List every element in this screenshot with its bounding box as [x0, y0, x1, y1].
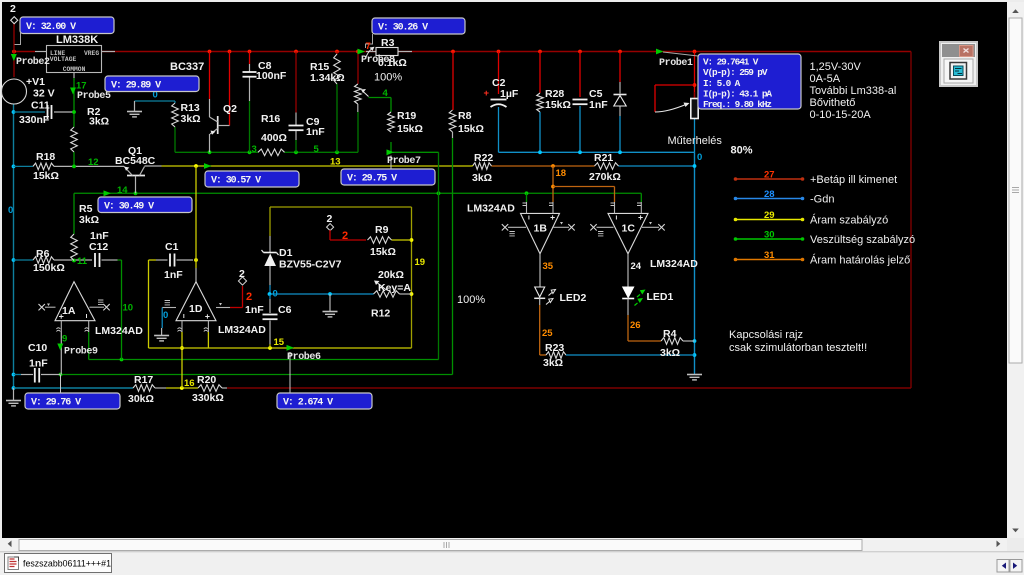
svg-text:V: 29.7641 V: V: 29.7641 V — [703, 57, 759, 68]
svg-text:C11: C11 — [31, 100, 50, 112]
probe Probe1 — [656, 49, 693, 69]
svg-text:V: 29.89 V: V: 29.89 V — [111, 80, 161, 91]
svg-text:+: + — [483, 88, 489, 99]
net label 19 — [415, 257, 426, 268]
svg-text:LM338K: LM338K — [56, 34, 98, 46]
svg-text:270kΩ: 270kΩ — [589, 171, 621, 183]
svg-text:1A: 1A — [62, 305, 76, 317]
junction rail x=14 — [12, 50, 16, 54]
svg-text:16: 16 — [184, 378, 195, 389]
junction node13 riser — [194, 164, 198, 168]
junction net0 bottom — [12, 386, 16, 390]
svg-text:11: 11 — [77, 256, 88, 267]
svg-text:Probe1: Probe1 — [659, 57, 693, 69]
resistor R13 — [172, 102, 201, 127]
legend net 30 — [734, 230, 915, 247]
probe box 29.89 — [105, 76, 199, 92]
wire pot4 col — [357, 52, 359, 85]
svg-text:További Lm338-al: További Lm338-al — [810, 85, 897, 97]
annotation specs — [810, 61, 897, 121]
svg-text:Key=A: Key=A — [378, 282, 411, 294]
svg-text:LM324AD: LM324AD — [650, 258, 698, 270]
wire R21 right — [619, 165, 695, 167]
svg-text:R21: R21 — [594, 152, 613, 164]
junction net0 R28 — [538, 150, 542, 154]
svg-text:400Ω: 400Ω — [261, 132, 287, 144]
wire R12 right — [400, 293, 412, 295]
wire 1A+ drop — [60, 332, 62, 375]
net label 0 mid — [273, 289, 278, 300]
junction rail x=229.5 — [228, 50, 232, 54]
junction net0 C5 — [578, 150, 582, 154]
wire net 3 row — [175, 151, 258, 153]
junction net30 1B — [525, 191, 529, 195]
junction rail x=296 — [294, 50, 298, 54]
ground right — [687, 373, 702, 380]
junction net0 R21 — [693, 164, 697, 168]
svg-text:15kΩ: 15kΩ — [397, 123, 423, 135]
svg-text:Q2: Q2 — [223, 103, 237, 115]
wire net 0 R13 row — [135, 101, 176, 103]
junction net0 R23 — [693, 353, 697, 357]
junction net0 R6 — [12, 258, 16, 262]
junction net15 C6 — [268, 346, 272, 350]
probe arrow 30.57 — [204, 163, 212, 169]
wire C10 left — [14, 374, 34, 376]
wire C2 col — [498, 52, 500, 153]
svg-text:1nF: 1nF — [164, 269, 183, 281]
op-amp U1B — [467, 202, 575, 254]
svg-text:100%: 100% — [457, 294, 485, 306]
probe box 30.57 — [205, 171, 299, 187]
junction rail x=453 — [451, 50, 455, 54]
wire R13 to net3 — [174, 127, 176, 152]
svg-text:1nF: 1nF — [29, 358, 48, 370]
capacitor C6 — [245, 304, 292, 319]
svg-text:3kΩ: 3kΩ — [181, 113, 201, 125]
svg-text:24: 24 — [631, 261, 642, 272]
svg-text:Kapcsolási rajz: Kapcsolási rajz — [729, 329, 803, 341]
junction node12 — [72, 165, 76, 169]
svg-text:0: 0 — [163, 310, 168, 321]
junction node16 — [180, 386, 184, 390]
svg-text:R8: R8 — [458, 110, 472, 122]
wire net 17 — [73, 73, 75, 127]
wire R23 right — [566, 354, 695, 356]
svg-text:3kΩ: 3kΩ — [472, 172, 492, 184]
legend net 27 — [734, 170, 897, 187]
svg-text:31: 31 — [764, 250, 775, 261]
svg-text:-Gdn: -Gdn — [810, 194, 834, 206]
wire net 19 box right — [411, 207, 413, 348]
wire C1 left — [149, 259, 168, 261]
probe Probe2 — [11, 54, 50, 68]
svg-text:1C: 1C — [622, 223, 636, 235]
wire net 30 R5 riser — [73, 193, 75, 234]
capacitor C9 — [289, 116, 326, 138]
net label 3 — [252, 144, 257, 155]
svg-text:V(p-p): 259 pV: V(p-p): 259 pV — [703, 67, 768, 78]
legend net 28 — [734, 189, 835, 206]
wire 1D V- to gnd — [161, 308, 163, 329]
LED LED2 — [534, 287, 586, 305]
svg-text:150kΩ: 150kΩ — [33, 262, 65, 274]
wire net 18 row — [492, 165, 595, 167]
wire R9 right — [392, 239, 412, 241]
svg-text:1nF: 1nF — [245, 304, 264, 316]
leader probe7 box — [390, 156, 392, 170]
svg-text:R16: R16 — [261, 113, 280, 125]
svg-text:2: 2 — [342, 230, 348, 242]
svg-text:BC548C: BC548C — [115, 155, 156, 167]
svg-text:Probe2: Probe2 — [16, 56, 50, 68]
net label 13 — [330, 157, 341, 168]
resistor R18 — [33, 151, 59, 182]
svg-text:28: 28 — [764, 189, 775, 200]
wire net 0 mid row — [270, 293, 374, 295]
junction rail x=580 — [578, 50, 582, 54]
svg-text:Probe8: Probe8 — [361, 54, 395, 66]
svg-text:2: 2 — [10, 3, 16, 15]
svg-text:Áram szabályzó: Áram szabályzó — [810, 214, 888, 227]
probe box 29.76 — [25, 393, 120, 409]
svg-text:V: 2.674 V: V: 2.674 V — [283, 398, 333, 409]
op-amp U1A — [39, 282, 144, 337]
potentiometer R3 — [366, 37, 412, 84]
svg-text:V: 30.26 V: V: 30.26 V — [378, 23, 428, 34]
junction net0 gndmid — [328, 292, 332, 296]
svg-text:3kΩ: 3kΩ — [543, 357, 563, 369]
resistor R8 — [449, 110, 484, 135]
ground Q1 bias — [127, 101, 142, 117]
svg-text:10: 10 — [123, 303, 134, 314]
svg-text:V: 32.00 V: V: 32.00 V — [26, 22, 76, 33]
net label 14 — [117, 185, 128, 196]
svg-text:R4: R4 — [663, 328, 677, 340]
wire load bottom — [694, 119, 696, 153]
junction rail x=540 — [538, 50, 542, 54]
legend net 31 — [734, 250, 911, 267]
net label 15 — [274, 337, 285, 348]
svg-text:1D: 1D — [189, 303, 203, 315]
net label 35 — [543, 261, 554, 272]
wire net 27 bottom border — [227, 387, 911, 389]
svg-text:12: 12 — [88, 157, 99, 168]
wire net 5 pot riser — [357, 112, 359, 152]
bottom tab bar — [0, 552, 1024, 575]
svg-text:3: 3 — [252, 144, 257, 155]
svg-text:COMMON: COMMON — [63, 66, 86, 73]
wire node 12 row — [14, 165, 125, 167]
leader probe9 box — [60, 375, 62, 393]
wire C11 left — [14, 111, 46, 113]
capacitor C5 — [573, 88, 609, 111]
probe box 30.26 — [372, 18, 465, 34]
svg-text:9: 9 — [62, 334, 67, 345]
voltage source V1 — [2, 76, 55, 104]
svg-text:Probe9: Probe9 — [64, 346, 98, 358]
resistor R17 — [128, 374, 155, 405]
svg-text:1.34kΩ: 1.34kΩ — [310, 72, 345, 84]
junction net0 R4 — [693, 339, 697, 343]
wire load col — [694, 52, 696, 99]
vertical scrollbar — [1007, 2, 1024, 538]
capacitor C2 — [483, 77, 518, 107]
junction rail x=249.5 — [248, 50, 252, 54]
wire net 5 R8 drop — [452, 138, 454, 375]
wire R20 right — [222, 387, 227, 389]
svg-text:Probe5: Probe5 — [77, 90, 111, 102]
probe box 32.00 — [20, 17, 114, 34]
wire net 30 row — [74, 192, 641, 194]
junction rail x=337 — [335, 50, 339, 54]
svg-text:29: 29 — [764, 210, 775, 221]
junction rail x=209.5 — [208, 50, 212, 54]
wire net 27 top rail — [14, 51, 911, 53]
resistor R28 — [537, 88, 571, 112]
svg-text:3kΩ: 3kΩ — [79, 214, 99, 226]
net label 16 — [184, 378, 195, 389]
junction net18 — [551, 164, 555, 168]
svg-text:R20: R20 — [197, 374, 216, 386]
svg-text:26: 26 — [630, 320, 641, 331]
svg-text:15: 15 — [274, 337, 285, 348]
potentiometer pot4 — [355, 84, 369, 112]
svg-text:R9: R9 — [375, 224, 389, 236]
svg-text:BC337: BC337 — [170, 61, 204, 73]
svg-text:R19: R19 — [397, 110, 416, 122]
net label 0 q1bias — [153, 90, 158, 101]
junction net19 R12 — [410, 292, 414, 296]
LED LED1 — [622, 287, 673, 306]
net label 18 — [556, 168, 567, 179]
svg-text:3kΩ: 3kΩ — [660, 347, 680, 359]
ground 1D — [154, 328, 169, 341]
junction rail x=498.5 — [497, 50, 501, 54]
svg-text:30kΩ: 30kΩ — [128, 393, 154, 405]
resistor R16 — [258, 113, 287, 156]
wire net 5 bottom row — [61, 374, 453, 376]
svg-text:80%: 80% — [731, 145, 753, 157]
svg-text:Bővithető: Bővithető — [810, 97, 856, 109]
wire net 27 right border — [910, 52, 912, 389]
svg-text:R3: R3 — [381, 37, 395, 49]
wire node 11 teal — [14, 259, 34, 261]
svg-text:7: 7 — [366, 41, 371, 52]
svg-text:20kΩ: 20kΩ — [378, 269, 404, 281]
net label 4 — [383, 88, 389, 99]
net label 24 — [631, 261, 642, 272]
svg-text:C12: C12 — [89, 241, 108, 253]
junction net18 branch — [551, 185, 555, 189]
svg-text:2: 2 — [246, 291, 252, 303]
legend net 29 — [734, 210, 889, 227]
svg-text:1,25V-30V: 1,25V-30V — [810, 61, 862, 73]
junction C1 out — [194, 258, 198, 262]
wire 1C out — [627, 254, 629, 287]
resistor R19 — [388, 110, 423, 135]
net label 0 1D — [163, 310, 168, 321]
svg-text:Probe6: Probe6 — [287, 351, 321, 363]
svg-text:R23: R23 — [545, 342, 564, 354]
probe box 2.674 — [277, 393, 372, 409]
wire net 30 1C drop — [640, 193, 642, 202]
horizontal scrollbar — [0, 538, 1024, 552]
svg-text:V: 29.76 V: V: 29.76 V — [31, 398, 81, 409]
svg-text:1nF: 1nF — [589, 99, 608, 111]
junction rail x=620 — [618, 50, 622, 54]
svg-text:14: 14 — [117, 185, 128, 196]
wire R17R20 gray — [155, 387, 166, 389]
svg-text:V: 30.57 V: V: 30.57 V — [211, 176, 261, 187]
probe box 30.49 — [98, 197, 192, 213]
svg-text:15kΩ: 15kΩ — [33, 170, 59, 182]
junction net17 C11 — [72, 110, 76, 114]
svg-text:feszszabb06111+++#1: feszszabb06111+++#1 — [23, 559, 111, 569]
svg-text:R12: R12 — [371, 308, 390, 320]
wire C6 bottom — [269, 321, 271, 349]
wire node 11 mid — [54, 259, 92, 261]
svg-text:1B: 1B — [534, 223, 548, 235]
wire net 19 box top — [270, 206, 412, 208]
svg-text:25: 25 — [542, 328, 553, 339]
svg-text:0: 0 — [8, 205, 13, 216]
wire node 10 riser — [121, 260, 123, 360]
svg-text:Áram határolás jelző: Áram határolás jelző — [810, 254, 910, 267]
wire R8 col — [452, 52, 455, 139]
svg-text:VOLTAGE: VOLTAGE — [50, 56, 77, 63]
wire net 2 V1 top — [13, 23, 15, 77]
net label 26 — [630, 320, 641, 331]
wire D2 col — [619, 52, 621, 153]
svg-text:BZV55-C2V7: BZV55-C2V7 — [279, 259, 342, 271]
svg-text:15kΩ: 15kΩ — [370, 246, 396, 258]
resistor R22 — [472, 152, 493, 184]
junction load tap — [693, 83, 697, 87]
connector 2 top-left — [10, 3, 18, 24]
junction net5 C9 — [294, 150, 298, 154]
net label 7 — [366, 41, 371, 52]
junction 1A- riser — [120, 358, 124, 362]
svg-text:R17: R17 — [134, 374, 153, 386]
probe Probe6 — [287, 345, 322, 363]
transistor Q2 — [170, 61, 237, 152]
svg-text:C1: C1 — [165, 241, 179, 253]
junction net3 C8 — [248, 150, 252, 154]
wire 1B out — [539, 254, 541, 287]
transistor Q1 — [115, 145, 156, 193]
resistor R15 — [310, 54, 345, 84]
junction net0 R18 — [12, 165, 16, 169]
svg-text:1nF: 1nF — [306, 126, 325, 138]
svg-text:+Betáp ill kimenet: +Betáp ill kimenet — [810, 174, 897, 186]
svg-text:100nF: 100nF — [256, 70, 287, 82]
ground bottom-left — [6, 388, 21, 406]
junction rail x=358 — [356, 50, 360, 54]
wire C11 right — [54, 111, 74, 113]
wire net 0 left vertical — [13, 104, 15, 389]
wire Q2 base col — [209, 52, 211, 118]
capacitor C1 — [164, 241, 183, 281]
connector 2 mid — [238, 268, 246, 285]
wire pot4 wiper — [369, 98, 392, 113]
wire net 30 R19 seg — [393, 151, 439, 153]
wire D1 bottom — [269, 266, 271, 294]
svg-text:15kΩ: 15kΩ — [545, 99, 571, 111]
svg-text:R6: R6 — [36, 248, 50, 260]
wire net 2 R9 — [330, 230, 366, 240]
svg-text:VREG: VREG — [84, 50, 99, 57]
probe Probe9 — [57, 344, 98, 358]
wire net 17 below R2 — [73, 152, 75, 166]
svg-text:18: 18 — [556, 168, 567, 179]
junction net19 R9 — [410, 238, 414, 242]
wire R17R20 yellow — [166, 387, 198, 389]
wire LED1 down — [628, 299, 661, 342]
junction net0 C11 — [12, 110, 16, 114]
svg-text:0: 0 — [697, 152, 702, 163]
capacitor C8 — [243, 60, 287, 82]
wire net 19 box left — [269, 207, 271, 236]
zener D1 — [262, 247, 342, 271]
wire C6 top — [269, 294, 271, 313]
wire net 30 1A row — [89, 359, 439, 361]
wire load tap — [655, 85, 695, 112]
wire D1 top — [269, 236, 271, 252]
wire net 2 1D — [230, 286, 243, 308]
svg-text:LM324AD: LM324AD — [467, 203, 515, 215]
junction 1D- mid — [180, 346, 184, 350]
resistor R20 — [192, 374, 224, 404]
svg-text:Műterhelés: Műterhelés — [668, 135, 723, 147]
svg-text:V: 29.75 V: V: 29.75 V — [347, 174, 397, 185]
svg-text:19: 19 — [415, 257, 426, 268]
wire C1 right — [177, 259, 194, 261]
svg-text:27: 27 — [764, 170, 775, 181]
wire net 15 bottom row — [149, 347, 412, 349]
wire R19 bottom — [390, 142, 392, 152]
wire C1 left riser — [148, 260, 150, 348]
svg-text:5: 5 — [314, 144, 320, 155]
svg-text:1µF: 1µF — [500, 88, 519, 100]
svg-text:C10: C10 — [28, 342, 47, 354]
svg-text:0-10-15-20A: 0-10-15-20A — [810, 109, 872, 121]
wire net 30 1B drop — [526, 193, 528, 202]
svg-text:V: 30.49 V: V: 30.49 V — [104, 201, 154, 212]
net label 25 — [542, 328, 553, 339]
net label 2 red mid — [246, 291, 252, 303]
junction net30 Q1b — [134, 191, 138, 195]
svg-text:15kΩ: 15kΩ — [458, 123, 484, 135]
wire node 11 right — [102, 259, 122, 261]
wire R28 col — [539, 52, 541, 153]
svg-text:4: 4 — [383, 88, 389, 99]
resistor R6 — [33, 248, 65, 274]
net label 11 — [77, 256, 88, 267]
wire net 0 right row — [499, 151, 695, 153]
wire net 0 bottom row — [14, 387, 134, 389]
op-amp U1D — [162, 282, 266, 336]
svg-text:I: 5.0 A: I: 5.0 A — [703, 78, 741, 89]
resistor R2 — [71, 106, 109, 152]
net label 2 red box — [342, 230, 348, 242]
net label 9 — [62, 334, 67, 345]
svg-text:30: 30 — [764, 230, 775, 241]
annotation kapcsolasi — [729, 329, 867, 354]
junction net30 x438 — [437, 191, 441, 195]
wire C10 right — [41, 374, 61, 376]
diode D2 — [614, 95, 627, 107]
